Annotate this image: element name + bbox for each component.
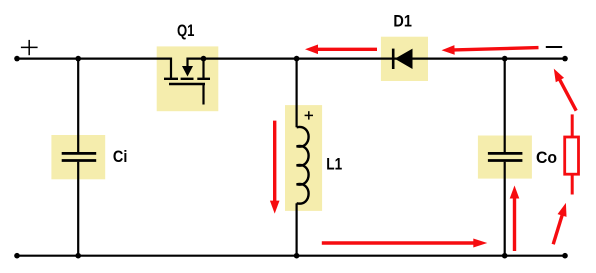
inductor L1	[297, 127, 309, 204]
label L1	[326, 155, 342, 174]
wire Ci branch bottom	[77, 162, 79, 256]
plus label L1	[305, 111, 313, 119]
wire L1 branch bottom	[296, 203, 298, 255]
current arrow right of D1	[441, 43, 538, 55]
node top left	[14, 56, 20, 62]
capacitor Co	[488, 153, 523, 160]
highlight box Co	[478, 136, 532, 179]
node bottom right	[562, 253, 568, 259]
capacitor Ci	[62, 153, 96, 160]
label Co	[536, 148, 557, 167]
current arrow down along L1	[270, 121, 280, 214]
diode D1	[393, 49, 412, 69]
node bottom left	[14, 253, 20, 259]
wire top left segment	[17, 59, 171, 78]
wire top right segment	[188, 59, 566, 66]
svg-text:Q1: Q1	[177, 22, 194, 41]
highlight box Ci	[51, 135, 105, 179]
svg-text:D1: D1	[393, 12, 412, 30]
load resistor (red)	[565, 114, 579, 194]
current arrow bottom wire	[322, 239, 488, 248]
minus terminal	[546, 46, 562, 48]
current arrow bottom to load	[549, 202, 571, 246]
label Q1	[177, 22, 194, 41]
label D1	[393, 12, 412, 30]
node bottom Ci	[75, 253, 81, 259]
current arrow left of D1	[305, 45, 377, 55]
node Q1 drain	[201, 56, 207, 62]
current arrow up along Co	[510, 186, 520, 252]
wire Co branch bottom	[504, 162, 506, 256]
wire Ci branch top	[77, 59, 79, 153]
wire L1 branch top	[296, 59, 298, 128]
label Ci	[113, 148, 127, 166]
node top right	[562, 56, 568, 62]
node top Ci	[75, 56, 81, 62]
node bottom L1	[294, 253, 300, 259]
wire Co branch top	[504, 59, 506, 153]
plus terminal	[21, 40, 38, 55]
svg-text:L1: L1	[326, 155, 342, 174]
transistor Q1	[164, 66, 210, 105]
node bottom Co	[502, 253, 508, 259]
node top Co	[502, 56, 508, 62]
svg-text:Ci: Ci	[113, 148, 127, 166]
node top L1	[294, 56, 300, 62]
current arrow load to minus terminal	[550, 66, 581, 113]
highlight box L1	[285, 105, 322, 211]
wire bottom	[17, 255, 565, 257]
svg-text:Co: Co	[536, 148, 557, 167]
wire Q1 drain lead	[202, 59, 204, 78]
highlight box D1	[381, 37, 428, 81]
highlight box Q1	[157, 46, 219, 111]
